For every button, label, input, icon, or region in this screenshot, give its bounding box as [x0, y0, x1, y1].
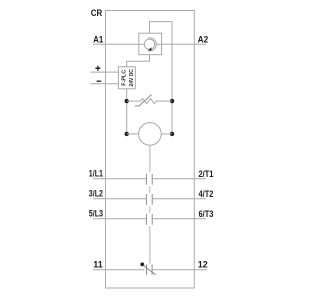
wire 11 — [93, 269, 144, 271]
svg-text:1/L1: 1/L1 — [89, 169, 104, 180]
minus sign — [97, 80, 102, 82]
coil K1 circle — [139, 123, 162, 146]
wire 2/T1 — [153, 178, 206, 180]
linkage row3 to aux contact — [149, 226, 151, 263]
wire left to coil — [127, 133, 139, 135]
wire 3/L2 — [93, 198, 146, 200]
wire 4/T2 — [153, 198, 206, 200]
wire coil box to A2 — [156, 43, 206, 45]
F-PLC 24V DC module box — [118, 67, 135, 89]
main contact poles row1 — [146, 174, 152, 185]
wire left to varistor — [127, 100, 141, 102]
wire left rail varistor to coil — [126, 101, 128, 134]
wire coil box top loop — [150, 22, 173, 102]
svg-text:CR: CR — [91, 8, 103, 19]
main contact poles row2 — [146, 194, 152, 205]
svg-text:11: 11 — [93, 260, 103, 271]
coil box U1 — [139, 33, 162, 55]
electronic coil arrowhead — [148, 47, 152, 50]
aux NC contact poles — [147, 264, 153, 275]
aux NC contact pivot dot — [140, 263, 144, 267]
svg-text:F-PLC: F-PLC — [121, 70, 127, 86]
linkage dash row2-row3 — [149, 206, 151, 213]
svg-text:24V DC: 24V DC — [129, 69, 135, 86]
svg-text:12: 12 — [198, 260, 208, 271]
wire 6/T3 — [153, 218, 206, 220]
svg-text:5/L3: 5/L3 — [89, 209, 103, 220]
svg-text:A1: A1 — [93, 34, 104, 45]
wire 1/L1 — [93, 178, 146, 180]
linkage coil to contacts — [149, 145, 151, 172]
wire minus input — [91, 83, 119, 85]
junction node bottom-left — [125, 132, 129, 136]
svg-text:3/L2: 3/L2 — [89, 189, 103, 200]
svg-text:A2: A2 — [198, 34, 209, 45]
varistor strike line — [135, 95, 152, 106]
electronic coil arc — [148, 38, 156, 51]
wire right rail varistor to coil — [171, 101, 173, 134]
wire F-PLC to left rail — [126, 89, 128, 101]
junction node top-left — [125, 99, 129, 103]
linkage dash row1-row2 — [149, 186, 151, 193]
enclosure frame of contactor CR — [106, 11, 195, 289]
wire coil to right — [161, 133, 172, 135]
varistor RV1 zigzag — [141, 99, 157, 104]
junction node top-right — [170, 99, 174, 103]
electronic coil circle — [144, 39, 154, 49]
junction node bottom-right — [170, 132, 174, 136]
aux NC contact blade — [143, 265, 155, 275]
main contact poles row3 — [146, 214, 152, 225]
plus sign — [95, 66, 100, 71]
wire coil box bottom to F-PLC — [127, 55, 150, 67]
wire 12 — [153, 269, 207, 271]
wire A1 to coil box — [93, 43, 144, 45]
wire 5/L3 — [93, 218, 146, 220]
wire varistor to right — [157, 100, 173, 102]
wire plus input — [91, 71, 119, 73]
